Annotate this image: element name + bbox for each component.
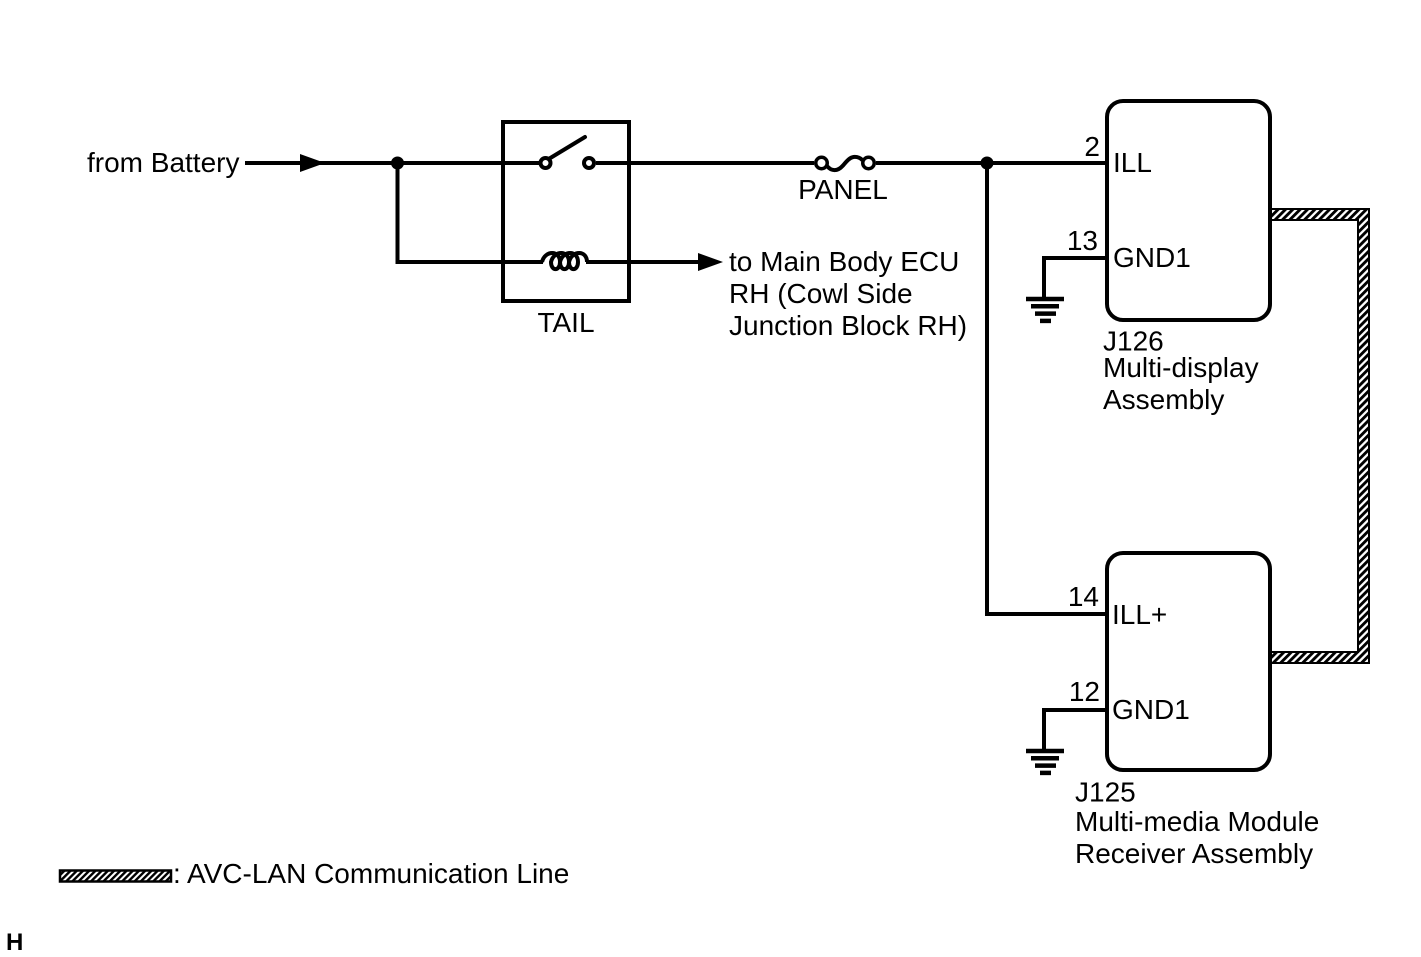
AVC-LAN communication line (hatched band) xyxy=(1271,209,1369,663)
wire J126 pin 13 to ground xyxy=(1044,258,1107,299)
svg-text:from Battery: from Battery xyxy=(87,147,239,178)
wire J125 pin 12 to ground xyxy=(1044,710,1107,751)
connector J126 Multi-display Assembly box xyxy=(1107,101,1270,320)
connector J125 Multi-media Module Receiver Assembly box xyxy=(1107,553,1270,770)
wire down to J125 pin 14 xyxy=(987,163,1107,614)
svg-text:Assembly: Assembly xyxy=(1103,384,1224,415)
svg-text:: AVC-LAN Communication Line: : AVC-LAN Communication Line xyxy=(173,858,569,889)
wire fuse to J126 pin 2 xyxy=(876,161,1107,165)
svg-text:13: 13 xyxy=(1067,225,1098,256)
relay switch contact circles xyxy=(541,158,551,168)
svg-text:ILL+: ILL+ xyxy=(1112,599,1167,630)
fuse PANEL wavy element xyxy=(827,157,863,170)
svg-text:GND1: GND1 xyxy=(1112,694,1190,725)
junction node at battery branch xyxy=(391,157,404,170)
svg-text:14: 14 xyxy=(1068,581,1099,612)
svg-text:Receiver Assembly: Receiver Assembly xyxy=(1075,838,1313,869)
relay box TAIL xyxy=(503,122,629,301)
svg-text:GND1: GND1 xyxy=(1113,242,1191,273)
fuse PANEL terminal circles xyxy=(816,157,828,169)
svg-text:ILL: ILL xyxy=(1113,147,1152,178)
relay coil xyxy=(542,253,587,269)
arrow on battery feed wire xyxy=(300,154,325,172)
ground symbol at J126 xyxy=(1026,299,1064,321)
wire branch down to relay coil xyxy=(398,161,544,262)
wire switch to fuse xyxy=(596,161,814,165)
svg-text:to Main Body ECU: to Main Body ECU xyxy=(729,246,959,277)
svg-text:H: H xyxy=(6,929,23,956)
junction node at ILL branch xyxy=(981,157,994,170)
svg-text:TAIL: TAIL xyxy=(537,307,594,338)
ground symbol at J125 xyxy=(1026,751,1064,773)
svg-text:Junction Block RH): Junction Block RH) xyxy=(729,310,967,341)
svg-text:2: 2 xyxy=(1084,131,1100,162)
arrow to Main Body ECU xyxy=(698,253,723,271)
svg-text:RH (Cowl Side: RH (Cowl Side xyxy=(729,278,913,309)
wire coil to arrow xyxy=(586,260,700,264)
svg-text:J125: J125 xyxy=(1075,777,1136,808)
legend hatched bar sample xyxy=(60,871,171,882)
svg-text:Multi-media Module: Multi-media Module xyxy=(1075,806,1319,837)
svg-text:PANEL: PANEL xyxy=(798,174,888,205)
svg-text:12: 12 xyxy=(1069,676,1100,707)
relay switch blade xyxy=(550,137,586,159)
svg-text:Multi-display: Multi-display xyxy=(1103,352,1259,383)
wire from Battery to switch xyxy=(245,161,539,165)
